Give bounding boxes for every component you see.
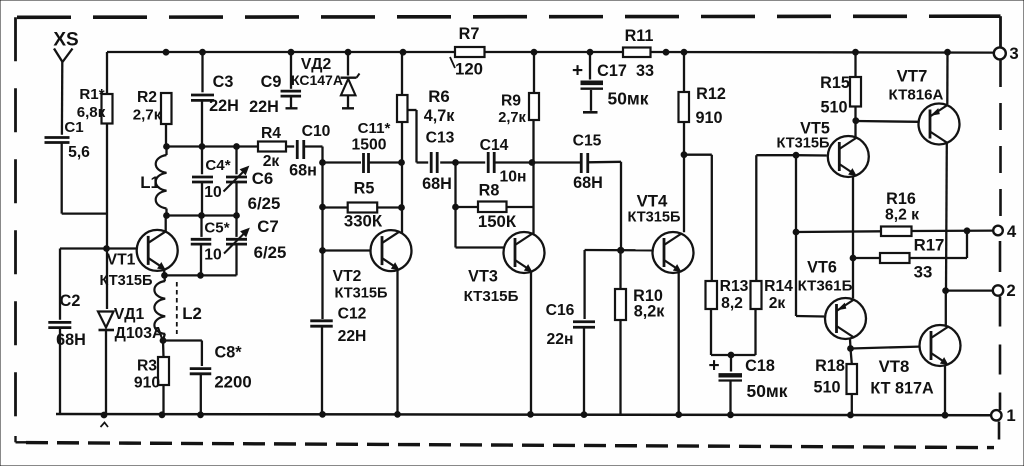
svg-text:5,6: 5,6 [68, 144, 90, 161]
svg-text:50мк: 50мк [608, 89, 649, 109]
svg-text:L1: L1 [140, 173, 160, 192]
svg-text:R16: R16 [886, 190, 916, 208]
svg-text:8,2к: 8,2к [634, 303, 666, 321]
svg-text:КС147А: КС147А [291, 72, 343, 88]
svg-text:R7: R7 [459, 25, 480, 43]
svg-text:22Н: 22Н [209, 97, 239, 115]
svg-text:КТ361Б: КТ361Б [798, 278, 853, 295]
svg-text:VT3: VT3 [468, 268, 498, 286]
svg-text:22Н: 22Н [249, 98, 279, 116]
svg-text:33: 33 [914, 263, 933, 282]
svg-text:22Н: 22Н [338, 328, 367, 345]
svg-text:C1: C1 [64, 119, 83, 136]
svg-text:68н: 68н [289, 162, 317, 180]
svg-text:33: 33 [636, 62, 654, 80]
svg-text:C3: C3 [213, 73, 234, 91]
svg-text:R5: R5 [354, 180, 375, 198]
svg-text:C6: C6 [252, 169, 273, 188]
svg-text:C15: C15 [573, 133, 602, 150]
svg-text:C5*: C5* [204, 220, 229, 237]
svg-text:6/25: 6/25 [254, 243, 287, 262]
svg-text:68Н: 68Н [56, 331, 86, 349]
svg-text:2,7к: 2,7к [498, 110, 526, 126]
svg-text:10: 10 [204, 184, 222, 201]
svg-text:VT8: VT8 [879, 357, 910, 376]
svg-text:+: + [708, 356, 719, 377]
svg-text:КТ816А: КТ816А [889, 87, 944, 104]
svg-text:VД2: VД2 [301, 56, 332, 73]
svg-text:2к: 2к [769, 295, 786, 312]
svg-text:C17: C17 [597, 62, 627, 80]
svg-text:2200: 2200 [214, 373, 251, 392]
svg-text:R3: R3 [137, 358, 157, 375]
svg-text:R13: R13 [720, 278, 749, 295]
svg-text:VT1: VT1 [107, 252, 136, 269]
svg-text:КТ 817А: КТ 817А [870, 380, 934, 398]
svg-text:10: 10 [204, 247, 222, 264]
svg-text:VT7: VT7 [897, 67, 928, 86]
svg-text:510: 510 [813, 379, 840, 397]
svg-text:10н: 10н [500, 169, 527, 186]
svg-text:+: + [572, 61, 583, 82]
svg-text:C13: C13 [426, 130, 455, 147]
svg-text:150К: 150К [478, 212, 517, 231]
svg-text:910: 910 [134, 375, 160, 392]
svg-text:3: 3 [1009, 44, 1018, 63]
svg-text:R2: R2 [137, 89, 157, 106]
svg-text:C12: C12 [338, 306, 367, 323]
svg-text:R9: R9 [501, 93, 521, 110]
svg-text:R17: R17 [914, 236, 945, 255]
svg-text:КТ315Б: КТ315Б [334, 286, 387, 302]
svg-text:КТ315Б: КТ315Б [776, 136, 829, 152]
svg-text:6/25: 6/25 [248, 194, 281, 213]
svg-text:C9: C9 [261, 73, 282, 91]
svg-text:XS: XS [53, 30, 78, 51]
svg-text:910: 910 [695, 109, 722, 127]
svg-text:120: 120 [455, 60, 483, 79]
svg-text:C18: C18 [745, 357, 775, 375]
svg-text:22н: 22н [547, 331, 574, 348]
svg-text:VД1: VД1 [114, 306, 145, 323]
svg-text:C8*: C8* [215, 344, 243, 362]
svg-text:68Н: 68Н [422, 175, 452, 193]
svg-text:R1*: R1* [79, 86, 104, 103]
svg-text:4,7к: 4,7к [424, 107, 456, 125]
svg-text:330К: 330К [344, 212, 383, 231]
svg-text:VT4: VT4 [637, 192, 668, 211]
svg-text:2,7к: 2,7к [133, 107, 162, 124]
svg-text:C4*: C4* [205, 157, 230, 174]
svg-text:1: 1 [1006, 406, 1015, 425]
svg-text:R18: R18 [815, 357, 845, 375]
svg-text:2к: 2к [263, 153, 280, 170]
svg-text:510: 510 [820, 99, 847, 117]
svg-text:R15: R15 [820, 74, 850, 92]
svg-text:8,2 к: 8,2 к [885, 207, 919, 224]
svg-text:8,2: 8,2 [721, 295, 743, 312]
svg-text:2: 2 [1006, 281, 1015, 300]
svg-text:R14: R14 [764, 278, 793, 295]
svg-text:50мк: 50мк [747, 381, 788, 401]
svg-text:R12: R12 [696, 85, 726, 103]
svg-text:1500: 1500 [352, 137, 387, 154]
svg-text:КТ315Б: КТ315Б [464, 288, 519, 305]
svg-text:4: 4 [1007, 222, 1017, 241]
svg-text:C2: C2 [60, 292, 81, 310]
svg-text:КТ315Б: КТ315Б [99, 273, 152, 289]
svg-text:R8: R8 [479, 182, 500, 200]
svg-text:C7: C7 [257, 217, 278, 236]
svg-text:КТ315Б: КТ315Б [627, 210, 680, 226]
svg-text:R4: R4 [261, 125, 281, 142]
svg-text:C16: C16 [546, 302, 575, 319]
svg-text:VT6: VT6 [807, 259, 837, 277]
svg-text:C10: C10 [302, 123, 331, 140]
svg-text:C14: C14 [480, 137, 509, 154]
svg-text:R11: R11 [625, 27, 654, 45]
svg-text:R6: R6 [428, 87, 449, 106]
svg-text:L2: L2 [182, 304, 202, 323]
svg-text:C11*: C11* [358, 120, 391, 137]
svg-text:VT2: VT2 [333, 268, 362, 285]
svg-text:68Н: 68Н [573, 174, 603, 192]
